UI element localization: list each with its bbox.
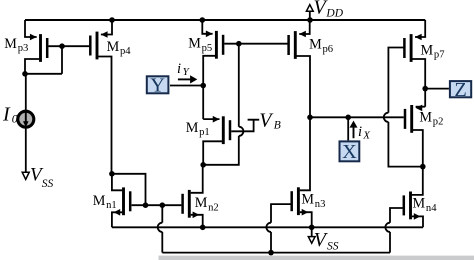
svg-text:Y: Y xyxy=(150,74,165,96)
svg-text:p7: p7 xyxy=(434,50,445,61)
svg-text:p5: p5 xyxy=(202,43,213,54)
svg-text:M: M xyxy=(188,36,201,52)
svg-text:p3: p3 xyxy=(18,43,29,54)
svg-text:i: i xyxy=(358,124,362,140)
svg-text:M: M xyxy=(107,39,120,55)
svg-text:M: M xyxy=(4,36,17,52)
svg-text:B: B xyxy=(274,120,281,132)
svg-text:M: M xyxy=(195,195,208,211)
svg-text:p2: p2 xyxy=(433,117,444,128)
svg-text:M: M xyxy=(301,192,314,208)
svg-text:M: M xyxy=(421,42,434,58)
svg-text:M: M xyxy=(419,109,432,125)
svg-text:X: X xyxy=(362,130,371,142)
svg-text:n3: n3 xyxy=(315,199,326,210)
svg-text:M: M xyxy=(413,196,426,212)
svg-text:n1: n1 xyxy=(106,200,117,211)
svg-text:Z: Z xyxy=(454,79,466,101)
svg-text:0: 0 xyxy=(12,111,18,125)
svg-text:p1: p1 xyxy=(199,127,210,138)
svg-text:M: M xyxy=(93,193,106,209)
svg-text:SS: SS xyxy=(327,241,339,253)
svg-text:i: i xyxy=(177,61,181,77)
svg-text:n4: n4 xyxy=(426,203,437,214)
svg-text:Y: Y xyxy=(183,66,191,78)
svg-text:I: I xyxy=(2,103,11,125)
svg-text:n2: n2 xyxy=(208,202,219,213)
svg-text:DD: DD xyxy=(325,8,343,20)
svg-text:SS: SS xyxy=(42,178,54,190)
svg-text:p4: p4 xyxy=(120,46,131,57)
svg-text:p6: p6 xyxy=(323,44,334,55)
svg-text:M: M xyxy=(309,37,322,53)
svg-text:M: M xyxy=(186,120,199,136)
svg-text:X: X xyxy=(342,141,357,163)
svg-text:V: V xyxy=(259,109,274,131)
